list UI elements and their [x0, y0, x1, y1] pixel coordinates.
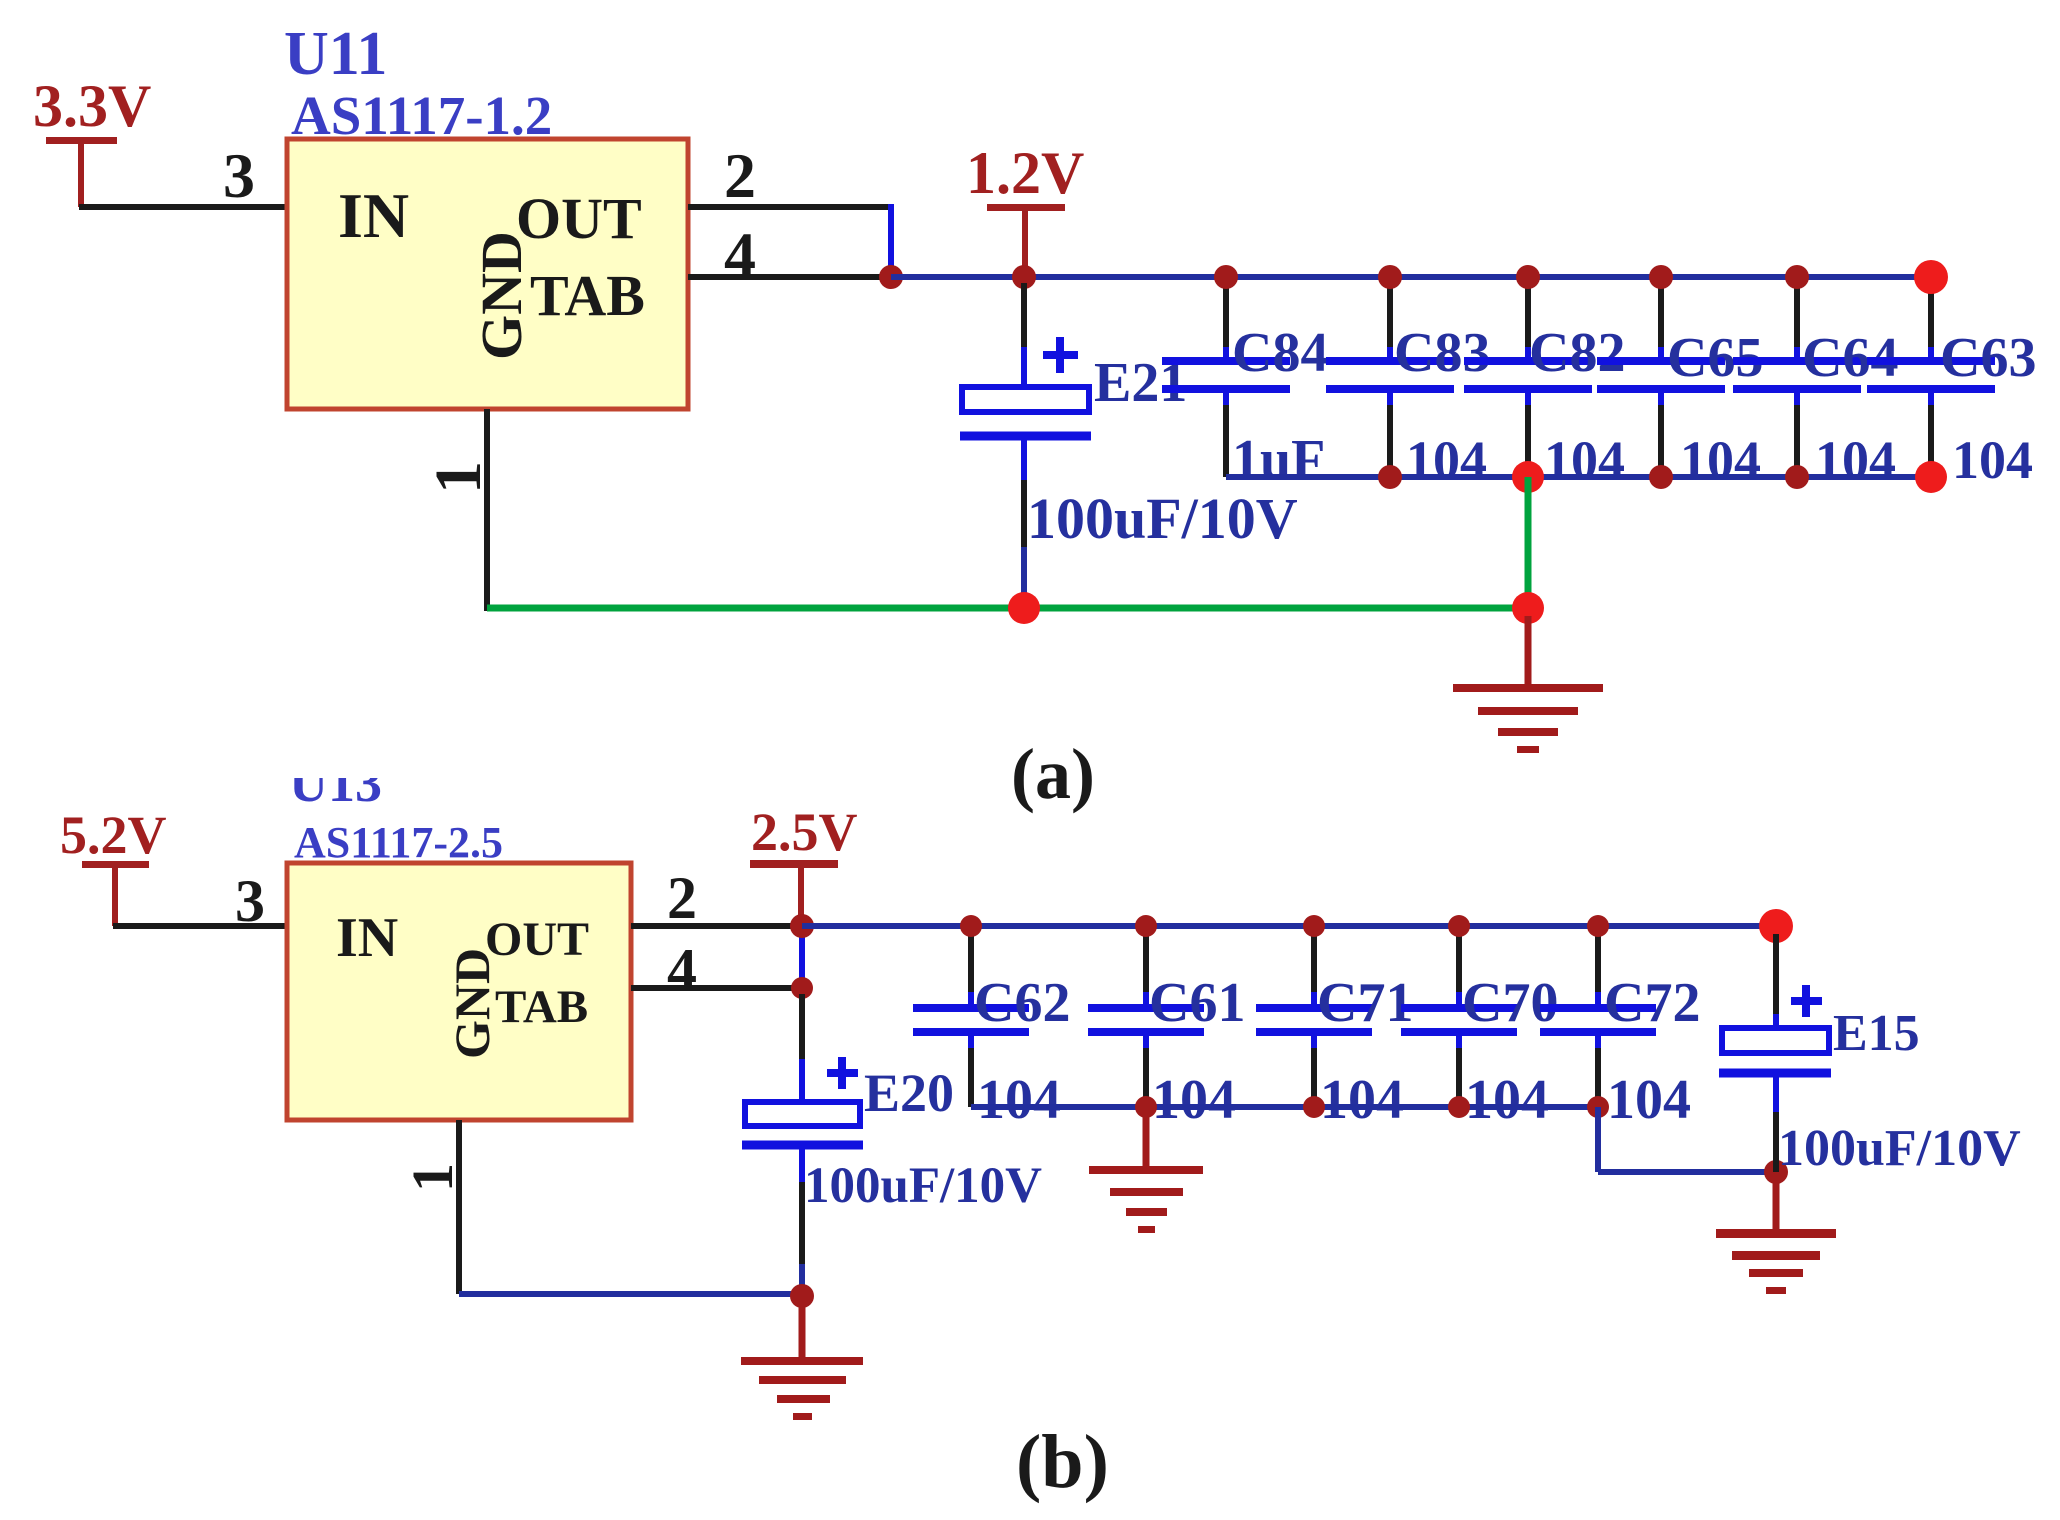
wire pin3 U13	[113, 923, 289, 929]
pin number 2 U13	[667, 865, 697, 931]
svg-text:C70: C70	[1462, 972, 1558, 1034]
capacitor C70 value 104	[1465, 1069, 1549, 1131]
svg-text:2: 2	[724, 140, 756, 211]
node dot E15 bottom	[1764, 1160, 1788, 1184]
svg-text:104: 104	[1607, 1069, 1691, 1131]
svg-text:104: 104	[1320, 1069, 1404, 1131]
node junction pin2/pin4	[879, 265, 903, 289]
capacitor C63 refdes	[1940, 327, 2036, 389]
capacitor C83 value 104	[1406, 430, 1487, 490]
svg-text:E20: E20	[864, 1063, 954, 1123]
subfigure label (b)	[1016, 1420, 1109, 1504]
wire 1.2V rail	[891, 274, 1931, 280]
power 3.3V bar symbol	[46, 137, 117, 207]
capacitor C61	[1088, 932, 1204, 1107]
capacitor C82	[1464, 283, 1592, 477]
capacitor C62 value 104	[977, 1069, 1061, 1131]
svg-text:TAB: TAB	[495, 981, 588, 1033]
svg-text:1: 1	[400, 1163, 465, 1192]
capacitor C83	[1326, 283, 1454, 477]
subfigure label (a)	[1011, 734, 1095, 814]
node dot C72 bottom	[1587, 1096, 1609, 1118]
capacitor E15 bottom wire	[1773, 1077, 1779, 1172]
power 3.3V label	[33, 73, 151, 139]
svg-text:3: 3	[235, 868, 265, 934]
capacitor C82 refdes	[1529, 322, 1625, 384]
capacitor C64 refdes	[1802, 327, 1898, 389]
op-amp U11 regulator body	[287, 139, 688, 409]
op-amp U13 regulator body	[287, 863, 631, 1120]
wire bottom capacitor rail (b)	[971, 1104, 1598, 1110]
ground symbol under E20	[741, 1304, 863, 1420]
capacitor C71 value 104	[1320, 1069, 1404, 1131]
wire 2.5V rail	[802, 923, 1776, 929]
wire blue link pin2-pin4	[799, 928, 805, 986]
wire pin1 ground net (b)	[459, 1291, 802, 1297]
capacitor E21 refdes	[1094, 352, 1187, 414]
svg-text:TAB: TAB	[530, 263, 645, 328]
svg-text:104: 104	[1152, 1069, 1236, 1131]
U11 pin name IN	[338, 180, 409, 251]
svg-text:C62: C62	[974, 972, 1070, 1034]
node junction 1.2V	[1012, 265, 1036, 289]
U13 pin name TAB	[495, 981, 588, 1033]
capacitor E21 top wire	[1021, 283, 1027, 388]
svg-text:1uF: 1uF	[1232, 429, 1325, 491]
capacitor E20 bottom wire	[799, 1149, 805, 1296]
ground symbol under E15	[1716, 1180, 1836, 1294]
svg-text:C83: C83	[1394, 322, 1490, 384]
svg-text:C84: C84	[1232, 322, 1328, 384]
capacitor C63 value 104	[1952, 430, 2033, 490]
svg-text:OUT: OUT	[485, 913, 589, 966]
capacitor C72 refdes	[1604, 972, 1700, 1034]
capacitor C62 refdes	[974, 972, 1070, 1034]
capacitor E21 bottom wire	[1021, 440, 1027, 608]
wire pin4 U13	[631, 985, 802, 991]
node junction E21 ground	[1008, 592, 1040, 624]
svg-text:3: 3	[223, 140, 255, 211]
capacitor E21 plus sign	[1043, 337, 1078, 373]
capacitor C84 value 1uF	[1232, 429, 1325, 491]
power 1.2V label	[966, 140, 1084, 206]
node dot C82 bottom	[1512, 461, 1544, 493]
node junction pin4	[791, 977, 813, 999]
node junction 2.5V pin2	[790, 914, 814, 938]
U11 pin name OUT	[516, 186, 642, 251]
ground symbol under C61	[1089, 1107, 1203, 1233]
svg-text:100uF/10V: 100uF/10V	[1027, 486, 1298, 551]
svg-text:1: 1	[422, 461, 495, 494]
capacitor C83 refdes	[1394, 322, 1490, 384]
svg-text:104: 104	[1406, 430, 1487, 490]
svg-text:(a): (a)	[1011, 734, 1095, 814]
U13 pin name GND (rotated)	[444, 948, 500, 1059]
wire pin3 U11	[79, 204, 289, 210]
node dot C83 top	[1378, 265, 1402, 289]
wire elbow blue pin2 down	[888, 204, 894, 277]
capacitor C84 refdes	[1232, 322, 1328, 384]
svg-text:104: 104	[977, 1069, 1061, 1131]
capacitor E15 plates	[1719, 1028, 1831, 1073]
pin number 3 U13	[235, 868, 265, 934]
capacitor C64 value 104	[1815, 430, 1896, 490]
capacitor C65 refdes	[1667, 327, 1763, 389]
wire pin1 U11 down	[484, 409, 490, 611]
U11 part value AS1117-1.2	[291, 85, 552, 146]
capacitor C82 value 104	[1544, 430, 1625, 490]
capacitor C63	[1867, 283, 1995, 477]
svg-text:2.5V: 2.5V	[751, 802, 858, 862]
U13 refdes (top-clipped)	[280, 750, 400, 813]
svg-text:100uF/10V: 100uF/10V	[1778, 1120, 2021, 1177]
pin number 1 U11 (rotated)	[422, 461, 495, 494]
pin number 4 U13	[667, 937, 697, 1003]
capacitor E20 plus sign	[827, 1057, 858, 1089]
svg-text:IN: IN	[336, 907, 398, 969]
U13 pin name IN	[336, 907, 398, 969]
svg-text:3.3V: 3.3V	[33, 73, 151, 139]
svg-text:5.2V: 5.2V	[60, 805, 167, 865]
power 2.5V bar symbol	[750, 860, 838, 924]
U11 refdes	[284, 20, 387, 88]
node dot C63 top (net end)	[1914, 260, 1948, 294]
capacitor E21 plates	[960, 387, 1091, 436]
capacitor C72	[1540, 932, 1656, 1107]
svg-text:104: 104	[1815, 430, 1896, 490]
capacitor E20 value 100uF/10V	[804, 1158, 1042, 1214]
power 5.2V bar symbol	[82, 861, 149, 926]
node dot C61 top	[1135, 915, 1157, 937]
node dot C82 top	[1516, 265, 1540, 289]
svg-text:104: 104	[1544, 430, 1625, 490]
capacitor C84	[1162, 283, 1290, 477]
capacitor C70	[1401, 932, 1517, 1107]
svg-text:AS1117-2.5: AS1117-2.5	[294, 818, 503, 867]
node dot C65 top	[1649, 265, 1673, 289]
node dot C71 bottom	[1303, 1096, 1325, 1118]
node dot C64 bottom	[1785, 465, 1809, 489]
node junction ground (a)	[1512, 592, 1544, 624]
ground symbol (a)	[1453, 616, 1603, 753]
node dot C84 top	[1214, 265, 1238, 289]
svg-text:E15: E15	[1833, 1005, 1920, 1062]
capacitor E20 top wire	[799, 994, 805, 1103]
pin number 3 U11	[223, 140, 255, 211]
node dot C65 bottom	[1649, 465, 1673, 489]
svg-text:C82: C82	[1529, 322, 1625, 384]
svg-text:IN: IN	[338, 180, 409, 251]
svg-text:104: 104	[1465, 1069, 1549, 1131]
svg-text:(b): (b)	[1016, 1420, 1109, 1504]
svg-text:U11: U11	[284, 20, 387, 88]
svg-text:104: 104	[1680, 430, 1761, 490]
node dot C62 top	[960, 915, 982, 937]
wire pin1 U13 down	[456, 1120, 462, 1294]
node junction E20 ground	[790, 1284, 814, 1308]
svg-text:C71: C71	[1317, 972, 1413, 1034]
svg-text:C72: C72	[1604, 972, 1700, 1034]
svg-text:1.2V: 1.2V	[966, 140, 1084, 206]
wire bottom capacitor rail (a)	[1226, 474, 1931, 480]
wire pin2 U11	[688, 204, 889, 210]
capacitor E21 value 100uF/10V	[1027, 486, 1298, 551]
capacitor C65 value 104	[1680, 430, 1761, 490]
capacitor C65	[1597, 283, 1725, 477]
pin number 4 U11	[724, 219, 756, 290]
wire green vertical to ground (a)	[1525, 477, 1532, 608]
capacitor C72 value 104	[1607, 1069, 1691, 1131]
pin number 2 U11	[724, 140, 756, 211]
capacitor C61 refdes	[1149, 972, 1245, 1034]
capacitor E15 plus sign	[1791, 985, 1822, 1017]
node dot C61 bottom	[1135, 1096, 1157, 1118]
capacitor C71	[1256, 932, 1372, 1107]
wire pin4 U11	[688, 274, 891, 280]
capacitor E15 top wire	[1773, 934, 1779, 1029]
capacitor C62	[913, 932, 1029, 1107]
power 5.2V label	[60, 805, 167, 865]
wire C72 bottom to E15 bottom	[1598, 1107, 1776, 1172]
capacitor C70 refdes	[1462, 972, 1558, 1034]
svg-text:2: 2	[667, 865, 697, 931]
node dot C83 bottom	[1378, 465, 1402, 489]
svg-text:4: 4	[667, 937, 697, 1003]
pin number 1 U13 (rotated)	[400, 1163, 465, 1192]
wire green ground net (a)	[487, 605, 1528, 612]
capacitor C64	[1733, 283, 1861, 477]
U13 part value AS1117-2.5	[294, 818, 503, 867]
node dot C64 top	[1785, 265, 1809, 289]
svg-text:104: 104	[1952, 430, 2033, 490]
svg-text:OUT: OUT	[516, 186, 642, 251]
svg-text:C61: C61	[1149, 972, 1245, 1034]
power 2.5V label	[751, 802, 858, 862]
node dot C72 top	[1587, 915, 1609, 937]
svg-text:100uF/10V: 100uF/10V	[804, 1158, 1042, 1214]
U13 pin name OUT	[485, 913, 589, 966]
node dot C71 top	[1303, 915, 1325, 937]
capacitor C61 value 104	[1152, 1069, 1236, 1131]
U11 pin name GND (rotated)	[469, 231, 534, 360]
capacitor C71 refdes	[1317, 972, 1413, 1034]
svg-text:C63: C63	[1940, 327, 2036, 389]
node dot C63 bottom	[1915, 461, 1947, 493]
node dot E15 top (net end)	[1759, 909, 1793, 943]
capacitor E15 value 100uF/10V	[1778, 1120, 2021, 1177]
power 1.2V bar symbol	[987, 204, 1065, 274]
capacitor E15 refdes	[1833, 1005, 1920, 1062]
wire pin2 U13	[631, 923, 802, 929]
capacitor E20 refdes	[864, 1063, 954, 1123]
node dot C70 bottom	[1448, 1096, 1470, 1118]
U11 pin name TAB	[530, 263, 645, 328]
capacitor E20 plates	[742, 1102, 863, 1145]
node dot C70 top	[1448, 915, 1470, 937]
